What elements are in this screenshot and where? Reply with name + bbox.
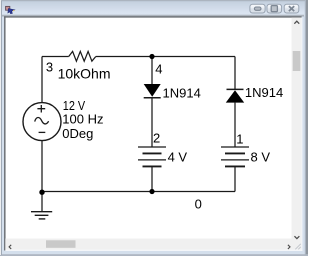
V1 sine wave xyxy=(35,118,49,124)
title bar xyxy=(0,0,306,16)
battery V2 plate long bottom xyxy=(138,159,166,161)
wire middle branch upper xyxy=(151,57,153,85)
close button xyxy=(284,4,299,13)
diode D1 triangle xyxy=(144,84,161,97)
wire top-right segment (node 4) xyxy=(96,56,235,58)
svg-text:4 V: 4 V xyxy=(168,149,188,164)
ground symbol bar 1 xyxy=(31,211,52,213)
svg-text:1N914: 1N914 xyxy=(163,85,201,100)
svg-text:1: 1 xyxy=(236,131,243,146)
outside background bottom strip xyxy=(0,254,308,256)
svg-text:2: 2 xyxy=(153,130,160,145)
horizontal scrollbar left arrow xyxy=(8,244,11,249)
diode D1 cathode bar xyxy=(144,97,161,99)
vertical scrollbar track xyxy=(292,18,302,250)
diode D2 triangle xyxy=(226,90,244,102)
wire middle branch mid (node 2) xyxy=(151,98,153,147)
battery V2 plate short xyxy=(143,152,162,154)
svg-text:4: 4 xyxy=(155,61,162,76)
battery V3 plate long bottom xyxy=(221,159,249,161)
vertical scrollbar up arrow xyxy=(294,20,300,24)
vertical scrollbar down arrow xyxy=(294,236,300,240)
svg-text:8 V: 8 V xyxy=(251,150,271,165)
svg-text:100 Hz: 100 Hz xyxy=(62,112,103,127)
ground symbol bar 3 xyxy=(39,218,46,220)
title bar bottom shadow xyxy=(2,14,304,16)
wire right branch mid (node 1) xyxy=(234,103,236,147)
svg-text:3: 3 xyxy=(46,59,53,74)
ground lead wire xyxy=(41,192,43,212)
V1 minus sign xyxy=(39,131,46,133)
maximize button xyxy=(267,4,282,13)
title bar icon xyxy=(6,6,15,13)
ground symbol bar 2 xyxy=(35,214,49,216)
diode D2 cathode bar xyxy=(227,88,244,90)
V1 plus sign xyxy=(37,105,45,113)
svg-text:10kOhm: 10kOhm xyxy=(58,66,111,82)
resize grip xyxy=(295,244,301,250)
battery V3 plate long top xyxy=(221,146,249,148)
svg-text:0: 0 xyxy=(195,196,202,211)
vertical scrollbar thumb xyxy=(293,51,301,71)
client sunken edge dark border top xyxy=(4,16,302,17)
wire top-left segment (node 3) xyxy=(42,56,69,58)
wire left branch lower xyxy=(41,141,43,192)
schematic canvas xyxy=(6,18,292,239)
wire right branch upper xyxy=(234,57,236,91)
horizontal scrollbar track xyxy=(5,239,291,250)
horizontal scrollbar right arrow xyxy=(288,244,291,249)
wire right branch lower xyxy=(234,166,236,191)
battery V2 plate long top xyxy=(138,146,166,148)
battery V3 plate short bottom xyxy=(225,165,245,167)
battery V3 plate short xyxy=(225,152,245,154)
junction node 4 dot xyxy=(149,54,154,59)
svg-text:0Deg: 0Deg xyxy=(62,126,93,141)
outside background right strip xyxy=(306,0,309,256)
wire bottom (node 0) xyxy=(42,191,235,193)
junction bottom-middle dot xyxy=(149,189,154,194)
wire middle branch lower xyxy=(151,166,153,191)
battery V2 plate short bottom xyxy=(143,165,162,167)
window outer border lines xyxy=(0,0,306,1)
client sunken edge dark border left xyxy=(4,16,6,250)
junction bottom-left dot xyxy=(39,190,44,195)
client sunken edge light border bottom xyxy=(5,250,302,252)
svg-text:1N914: 1N914 xyxy=(245,85,283,100)
AC source V1 circle xyxy=(23,103,61,141)
resistor R1 body xyxy=(69,51,96,61)
horizontal scrollbar thumb xyxy=(46,240,76,248)
client sunken edge light border right xyxy=(301,18,304,252)
wire left branch upper xyxy=(41,57,43,104)
minimize button xyxy=(250,4,265,13)
